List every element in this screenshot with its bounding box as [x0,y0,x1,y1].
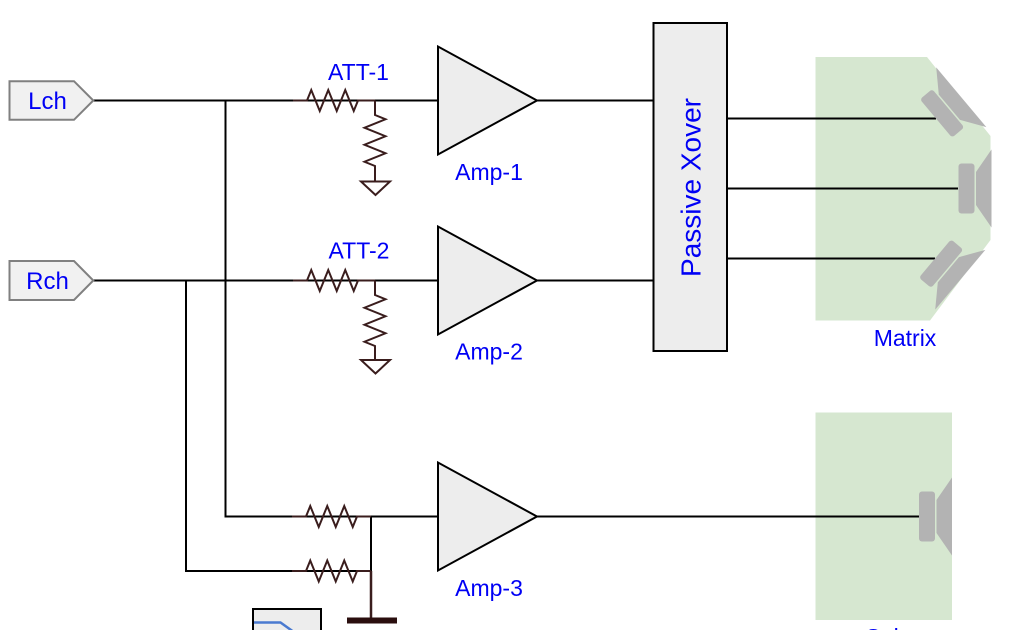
green speaker zone Sub [816,413,953,621]
ground (ATT-1 shunt) [361,182,390,196]
wire Xover output top [727,118,936,120]
svg-text:ATT-2: ATT-2 [329,238,390,264]
resistor ATT-2 [293,238,389,292]
ground (ATT-2 shunt) [361,360,390,374]
speaker top (Matrix) [911,67,986,148]
resistor ATT-1 [293,59,389,111]
wire Lch to Amp-1 input [93,100,438,102]
block low-pass filter (cut off) [253,609,321,630]
input tag Lch [10,81,94,120]
speaker middle (Matrix) [959,150,992,228]
resistor R3 (L summing) [292,506,371,527]
svg-text:Rch: Rch [26,268,69,295]
svg-text:Amp-2: Amp-2 [455,339,523,365]
wire summing node vertical [370,517,372,572]
speaker Sub [919,478,952,556]
wire Xover output bottom [727,258,935,260]
green speaker zone Matrix [816,57,991,321]
svg-text:Lch: Lch [28,88,67,115]
input tag Rch [10,261,94,300]
wire Amp-1 output to Passive Xover [537,100,654,102]
svg-text:Amp-3: Amp-3 [455,575,523,601]
speaker bottom (Matrix) [910,229,985,310]
op-amp Amp-2 [438,227,537,365]
wire Amp-3 output to Sub [537,516,919,518]
wire Xover output middle [727,188,958,190]
wire Lch branch vertical [226,101,439,517]
resistor ATT-1 shunt to ground [365,101,386,182]
resistor ATT-2 shunt to ground [365,281,386,361]
wire Rch to Amp-2 input [93,280,438,282]
svg-text:Matrix: Matrix [874,325,937,351]
wire Rch branch vertical [186,281,371,572]
svg-text:Passive Xover: Passive Xover [676,98,707,277]
block Passive Xover [654,23,728,351]
svg-text:ATT-1: ATT-1 [328,59,389,85]
svg-text:Sub: Sub [866,624,907,630]
svg-text:Amp-1: Amp-1 [455,159,523,185]
op-amp Amp-3 [438,463,537,602]
resistor R4 (R summing) [292,561,371,582]
wire Amp-2 output to Passive Xover [537,280,654,282]
op-amp Amp-1 [438,47,537,186]
ground (summing node) [347,571,397,621]
